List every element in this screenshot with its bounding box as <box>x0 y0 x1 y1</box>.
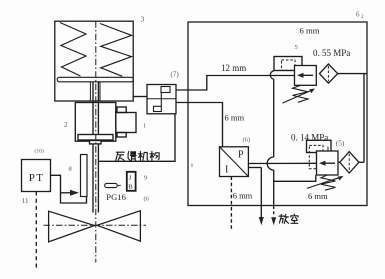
svg-text:(6: (6 <box>144 195 150 202</box>
svg-text:(10): (10) <box>35 147 44 154</box>
svg-text:PG16: PG16 <box>106 192 126 202</box>
svg-text:8: 8 <box>69 166 72 173</box>
svg-text:PT: PT <box>29 172 45 184</box>
svg-text:2: 2 <box>361 14 364 20</box>
svg-text:12 mm: 12 mm <box>221 63 246 73</box>
svg-text:2: 2 <box>64 121 68 129</box>
svg-text:6: 6 <box>356 11 360 19</box>
svg-text:B: B <box>128 184 133 191</box>
svg-text:5: 5 <box>295 44 298 51</box>
svg-text:6 mm: 6 mm <box>225 113 245 123</box>
svg-text:0. 14 MPa: 0. 14 MPa <box>291 133 328 143</box>
svg-text:(7): (7) <box>171 70 180 78</box>
svg-text:P: P <box>238 150 244 161</box>
svg-text:3: 3 <box>141 16 145 24</box>
svg-text:0. 55 MPa: 0. 55 MPa <box>313 48 350 58</box>
svg-text:(6): (6) <box>243 137 251 144</box>
svg-text:1: 1 <box>143 123 146 130</box>
svg-text:I: I <box>225 165 228 176</box>
svg-text:6 mm: 6 mm <box>233 191 253 201</box>
svg-text:9: 9 <box>144 174 147 181</box>
svg-text:11: 11 <box>22 197 29 205</box>
svg-text:(5): (5) <box>336 138 345 147</box>
svg-text:6 mm: 6 mm <box>300 26 320 36</box>
svg-text:6 mm: 6 mm <box>308 191 328 201</box>
